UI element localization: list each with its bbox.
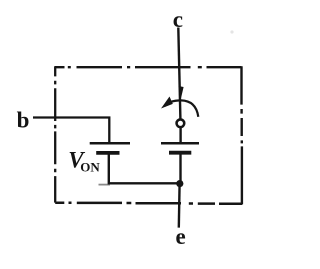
wire: V_ON battery down and right to junction xyxy=(109,153,179,183)
current source circle xyxy=(177,119,185,127)
battery (right) short thick plate xyxy=(169,151,191,155)
boundary box top edge (dash-dot) xyxy=(55,66,241,68)
svg-text:b: b xyxy=(17,107,30,132)
svg-text:c: c xyxy=(173,7,183,32)
paper speck xyxy=(230,30,233,33)
battery V_ON short thick plate xyxy=(96,151,119,155)
battery V_ON long plate xyxy=(90,142,130,145)
wire: faint stub left of corner xyxy=(99,184,111,186)
wire: b lead horizontal then down to V_ON battery xyxy=(33,118,109,143)
wire: collector lead from c down to current source xyxy=(178,28,180,119)
wire: right battery to junction node xyxy=(179,153,181,184)
curved arrow arrowhead xyxy=(161,97,173,109)
junction node dot xyxy=(176,180,183,187)
boundary box bottom edge (dash-dot) xyxy=(55,203,242,204)
svg-text:ON: ON xyxy=(80,159,100,174)
boundary box right edge (dash-dot) xyxy=(240,66,243,204)
wire: emitter lead from node down to e xyxy=(178,184,181,228)
wire: current source circle to right battery xyxy=(179,128,181,143)
controlled-source curved arrow arc xyxy=(164,100,198,116)
current direction arrowhead on collector wire xyxy=(178,86,183,100)
boundary box left edge (dash-dot) xyxy=(54,66,56,202)
svg-text:e: e xyxy=(175,224,185,249)
battery (right) long plate xyxy=(161,142,199,145)
